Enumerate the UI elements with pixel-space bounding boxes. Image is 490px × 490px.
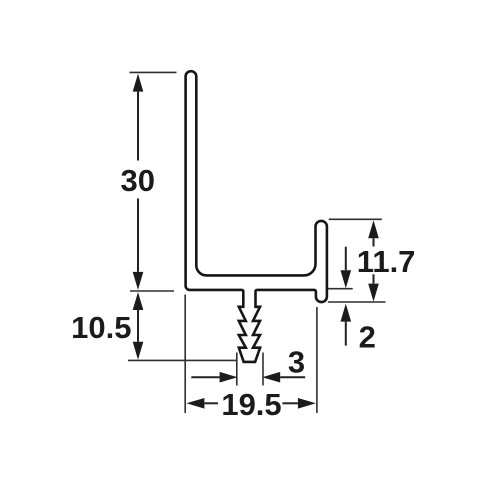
svg-text:3: 3 [288, 345, 305, 380]
svg-text:11.7: 11.7 [357, 244, 416, 279]
svg-text:2: 2 [359, 320, 376, 355]
svg-text:30: 30 [121, 163, 155, 198]
svg-text:19.5: 19.5 [221, 387, 281, 422]
svg-text:10.5: 10.5 [71, 310, 131, 345]
